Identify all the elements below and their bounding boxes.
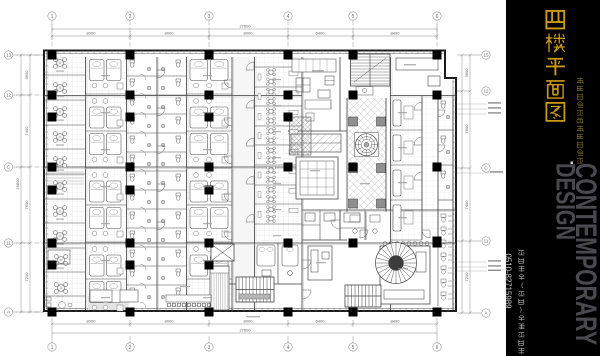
right shaft hatch + tub: [351, 54, 391, 95]
svg-text:1: 1: [51, 14, 54, 20]
svg-text:12: 12: [483, 89, 489, 94]
svg-text:15: 15: [483, 53, 489, 58]
window ticks outer walls: [44, 50, 456, 312]
door arcs: [157, 62, 445, 299]
toilets column SE: [441, 214, 452, 300]
svg-text:25800: 25800: [15, 178, 20, 190]
svg-text:12: 12: [6, 93, 12, 98]
svg-text:27600: 27600: [239, 328, 251, 333]
reception counter stools: [166, 295, 211, 307]
structural columns: [48, 51, 442, 317]
svg-text:2: 2: [129, 345, 132, 351]
right leader notes: [455, 104, 489, 271]
dimension frame bottom: [51, 318, 439, 336]
subtitle small gold text: [577, 78, 584, 164]
grid bubbles top: [48, 12, 441, 50]
svg-text:8000: 8000: [87, 319, 97, 324]
stair bottom center: [236, 277, 274, 302]
svg-text:8000: 8000: [165, 31, 175, 36]
svg-text:4: 4: [287, 345, 290, 351]
svg-text:6: 6: [436, 14, 439, 20]
stair center vertical: [210, 266, 229, 310]
room left of atrium: [305, 100, 331, 121]
svg-text:8000: 8000: [87, 31, 97, 36]
dark lattice patch: [290, 117, 312, 155]
svg-text:0510-82715989: 0510-82715989: [504, 254, 513, 310]
right wing lower rooms: [302, 210, 438, 306]
title: 面: [546, 81, 565, 98]
bed rooms col1: [90, 60, 124, 312]
svg-text:7600: 7600: [464, 124, 469, 134]
title: 四: [546, 11, 564, 29]
bathroom fixtures: [130, 60, 181, 308]
svg-text:6: 6: [436, 345, 439, 351]
svg-text:13: 13: [6, 53, 12, 58]
svg-text:2: 2: [129, 14, 132, 20]
svg-text:8000: 8000: [244, 31, 254, 36]
title: 平: [546, 59, 565, 76]
svg-text:8000: 8000: [165, 319, 175, 324]
stair bottom right: [345, 285, 381, 307]
stool row SE lounge: [383, 242, 429, 246]
title: 图: [546, 103, 564, 121]
dining tables left column: [53, 58, 67, 294]
svg-text:27600: 27600: [239, 24, 251, 29]
bedrooms right of elevator: [257, 243, 298, 284]
service rooms below atrium: [350, 212, 380, 240]
svg-text:7200: 7200: [464, 272, 469, 282]
svg-text:5: 5: [352, 345, 355, 351]
big table room: [296, 157, 338, 199]
svg-text:6400: 6400: [316, 31, 326, 36]
dimension frame right: [457, 54, 481, 315]
grid bubbles right: [482, 51, 490, 317]
svg-text:6400: 6400: [316, 319, 326, 324]
building outer wall: [44, 51, 456, 312]
firm name white text: [519, 251, 525, 354]
svg-text:5: 5: [352, 14, 355, 20]
dining tables col2: [258, 69, 298, 223]
atrium corner piers: [349, 117, 386, 208]
svg-text:3600: 3600: [464, 68, 469, 78]
grey floor room bottom-left: [88, 296, 128, 310]
title: 楼: [546, 34, 565, 53]
top right room: [396, 58, 440, 86]
bottom left rooms: [48, 250, 138, 302]
wall double lines: [44, 57, 456, 310]
corridor shade: [233, 57, 255, 310]
svg-text:7400: 7400: [464, 200, 469, 210]
dimension frame top: [51, 24, 439, 40]
atrium lattice corridor: [348, 98, 386, 211]
svg-text:DESIGN: DESIGN: [551, 163, 581, 240]
svg-text:7600: 7600: [24, 200, 29, 210]
atrium medallion: [355, 133, 379, 157]
svg-text:3: 3: [208, 14, 211, 20]
interior walls: [44, 57, 456, 310]
top middle room: [292, 59, 336, 98]
room dividers: [44, 67, 453, 296]
svg-text:7200: 7200: [24, 272, 29, 282]
room label marks: [56, 64, 416, 317]
dimension frame left: [16, 54, 44, 314]
svg-text:11: 11: [484, 239, 489, 244]
bed rooms col2: [190, 60, 228, 277]
svg-text:8400: 8400: [391, 319, 401, 324]
escalator hatch band: [291, 134, 341, 152]
svg-text:3600: 3600: [24, 70, 29, 80]
grid bubbles left: [4, 51, 44, 316]
svg-text:4: 4: [287, 14, 290, 20]
floor tile fills: [46, 57, 85, 310]
hatch strip near row C left: [46, 172, 84, 184]
svg-text:8400: 8400: [391, 31, 401, 36]
svg-text:1: 1: [51, 345, 54, 351]
svg-text:7400: 7400: [24, 126, 29, 136]
elevator core center: [211, 244, 234, 261]
right wing furniture: [393, 100, 450, 231]
small white mark: [571, 162, 574, 165]
svg-text:3: 3: [208, 345, 211, 351]
grid bubbles bottom: [48, 336, 441, 351]
spiral stair: [376, 243, 417, 284]
svg-text:8000: 8000: [244, 319, 254, 324]
svg-text:11: 11: [6, 241, 11, 246]
title sidebar background: [506, 0, 600, 356]
